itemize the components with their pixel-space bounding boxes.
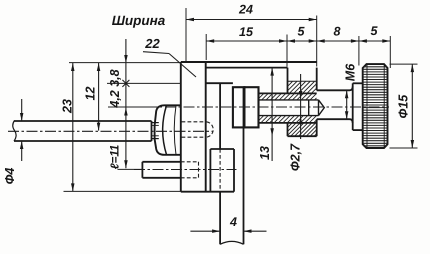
label 22 underline [143, 52, 169, 54]
screw axial hole bottom [259, 115, 319, 117]
dimension 15 left arrow [206, 39, 214, 43]
svg-text:4: 4 [229, 215, 237, 229]
svg-text:13: 13 [258, 146, 272, 160]
shared extension at bracket left [286, 35, 288, 67]
knob outline [363, 64, 388, 148]
knob left chamfer line [366, 65, 368, 148]
dimension Ф15 top extension [390, 63, 418, 65]
top plate top edge [181, 61, 317, 63]
label 22 leader [169, 54, 196, 78]
bar left edge lower [219, 192, 221, 245]
screw hole divider [308, 100, 310, 116]
left block left edge [141, 162, 143, 178]
dimension boundary cross [122, 80, 129, 87]
dimension 12 bottom arrow [97, 123, 101, 131]
bar bottom break [220, 241, 243, 244]
rod threaded stub major top [152, 122, 159, 124]
top plate underside [206, 67, 288, 69]
bracket right edge upper [316, 68, 318, 91]
dimension Ф15 top arrow [411, 64, 415, 72]
body left edge [180, 62, 182, 192]
rod left break line [13, 121, 16, 142]
dimension 13 top arrow [270, 68, 274, 76]
dimension 15 left extension [205, 34, 207, 60]
extension line bottom y191 [64, 190, 181, 192]
dimension 3,8 top arrow [124, 55, 128, 63]
lower block right edge [233, 149, 235, 192]
svg-text:22: 22 [144, 36, 160, 51]
rod centerline [8, 130, 214, 132]
dimension 4 right line [244, 230, 267, 232]
dimension 5 second line [359, 40, 390, 42]
bar left edge hidden [219, 149, 221, 192]
dimension 4 right arrow [244, 229, 252, 233]
svg-text:4,2 3,8: 4,2 3,8 [108, 69, 122, 108]
svg-text:23: 23 [61, 99, 75, 114]
dimension l=11 bottom arrow [124, 160, 128, 168]
extension line y83 [107, 82, 181, 84]
dimension Ф15 bottom arrow [411, 140, 415, 148]
dimension Ф4 upper line [21, 99, 23, 121]
svg-text:Ф4: Ф4 [3, 168, 17, 185]
dimension 4 left line [190, 230, 220, 232]
bracket hatch boundary [288, 80, 317, 82]
clamp plate right [244, 87, 258, 127]
dimension 23 top arrow [71, 63, 75, 71]
dimension 5 first right arrow [309, 39, 317, 43]
dimension 8 left arrow [317, 39, 325, 43]
left block hidden hole bottom [181, 177, 199, 179]
dimension Ф4 lower arrow [20, 141, 24, 149]
rod shoulder at thread [151, 121, 153, 141]
svg-text:12: 12 [84, 87, 98, 101]
collar bottom edge [353, 129, 363, 131]
screw axis extension [108, 106, 162, 108]
nut outline [155, 105, 181, 155]
collar left edge [352, 83, 354, 130]
dimension 3,8 4,2 line [125, 39, 127, 168]
left block bottom [142, 177, 180, 179]
screw hole drill cone [319, 100, 325, 116]
nut face line [174, 105, 176, 154]
hidden rod hole bottom [182, 136, 207, 138]
dimension Ф2,7 bottom arrow [299, 116, 303, 124]
dimension 24 left arrow [186, 18, 194, 21]
rod threaded stub major bottom [152, 138, 159, 140]
dimension 12 line [98, 63, 100, 131]
bracket left edge lower [287, 123, 289, 136]
rod Ф4 bottom edge [14, 140, 152, 142]
bracket right edge lower [316, 119, 318, 136]
dimension 4,2 bottom arrow [124, 108, 128, 116]
bar top edge [206, 82, 233, 84]
dimension Ф4 upper arrow [20, 113, 24, 121]
dimension 13 line [271, 68, 273, 161]
svg-text:Ф2,7: Ф2,7 [289, 143, 303, 171]
clamp plate left [233, 87, 245, 127]
nut chamfer arc [163, 106, 167, 155]
dimension Ф15 line [411, 64, 413, 148]
bracket lower hatch [288, 123, 316, 136]
bracket bottom edge [288, 135, 317, 137]
left block hidden hole end [198, 162, 200, 178]
dimension Ф15 bottom extension [390, 147, 418, 149]
knob right chamfer line [383, 65, 385, 148]
dimension 13 bottom arrow [270, 128, 274, 136]
bracket upper hatch [288, 82, 316, 94]
screw end face [258, 93, 260, 123]
svg-text:ℓ=11: ℓ=11 [110, 145, 122, 170]
rod threaded stub minor bottom [152, 135, 159, 137]
dimension 5 first line [287, 40, 317, 42]
rod Ф4 top edge [14, 120, 152, 122]
extension at knob right [389, 36, 391, 68]
body bottom edge [181, 191, 234, 193]
dimension 8 right arrow [351, 39, 359, 43]
svg-text:Ширина: Ширина [112, 13, 166, 28]
dimension 15 right arrow [279, 39, 287, 43]
screw thread major bottom [259, 122, 317, 124]
dimension 24 right extension [316, 16, 318, 67]
dimension 5 second right arrow [382, 39, 390, 43]
dimension 23 line [72, 63, 74, 191]
dimension 24 line [186, 19, 317, 21]
dimension 23 bottom arrow [71, 183, 75, 191]
extension at knob left [358, 36, 360, 66]
collar top edge [353, 82, 363, 84]
body right edge [205, 62, 207, 192]
extension line top y63 [69, 62, 181, 64]
screw axis centerline [165, 106, 389, 108]
knob knurling [363, 67, 387, 146]
bar right edge [243, 87, 245, 244]
dimension M6 top arrow [345, 90, 349, 98]
dimension 5 first left arrow [287, 39, 295, 43]
neck top edge [317, 87, 353, 91]
svg-text:5: 5 [298, 24, 306, 38]
dimension 24 left extension [185, 8, 187, 61]
dimension M6 bottom arrow [345, 111, 349, 119]
dimension 15 line [206, 40, 287, 42]
svg-text:M6: M6 [344, 63, 358, 81]
dimension 12 top arrow [97, 63, 101, 71]
left block top [142, 161, 180, 163]
screw section hatch top band [259, 94, 317, 100]
hidden rod hole top [182, 121, 207, 123]
dimension 4 left arrow [212, 229, 220, 233]
lower block left edge [209, 149, 211, 192]
dimension 24 right arrow [309, 18, 317, 21]
dimension Ф2,7 top arrow [299, 91, 303, 99]
bar left edge upper [219, 83, 221, 149]
dimension 8 line [317, 40, 359, 42]
screw thread major top [259, 92, 317, 94]
svg-text:15: 15 [239, 25, 254, 39]
screw section hatch bottom band [259, 116, 317, 123]
lower block top [210, 148, 234, 150]
bracket left edge upper [287, 68, 289, 94]
svg-text:24: 24 [238, 2, 253, 16]
left block centerline [134, 169, 237, 171]
left block hidden hole top [181, 161, 199, 163]
dimension Ф4 lower line [21, 141, 23, 161]
extension line y169 [118, 168, 143, 170]
svg-text:5: 5 [371, 24, 379, 38]
svg-text:Ф15: Ф15 [397, 94, 411, 119]
screw axial hole top [259, 99, 319, 101]
dimension 5 second left arrow [359, 39, 367, 43]
neck bottom edge [317, 119, 353, 123]
dimension Ф2,7 line [300, 74, 302, 139]
svg-text:8: 8 [334, 24, 341, 38]
rod threaded stub minor top [152, 124, 159, 126]
hidden rod hole end cap [207, 122, 214, 137]
dimension M6 line [346, 90, 348, 119]
